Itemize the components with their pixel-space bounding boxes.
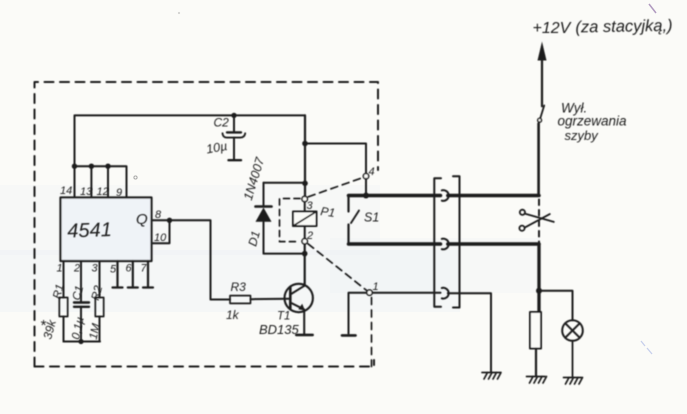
- resistor R3: [230, 296, 251, 304]
- wire dashed bracket around relay: [280, 199, 301, 242]
- wire +12V feed vertical: [528, 124, 539, 196]
- svg-text:6: 6: [126, 263, 133, 275]
- wire top rail: [75, 115, 306, 166]
- ignition switch blade: [540, 106, 544, 119]
- node lamp branch junction: [536, 288, 542, 294]
- relay P1 coil: [293, 212, 317, 227]
- wire RC bottom bus: [64, 341, 101, 343]
- wire thick row2: [349, 242, 441, 246]
- +12V arrow: [541, 60, 543, 106]
- ground (row3): [482, 373, 501, 380]
- wire pin 10 tie: [152, 220, 170, 243]
- transistor T1: [285, 284, 313, 335]
- svg-text:BD135: BD135: [259, 322, 300, 337]
- connector bracket right: [453, 176, 460, 307]
- svg-text:+12V: +12V: [533, 20, 572, 37]
- op-amp U1 4541 IC body: [61, 198, 152, 262]
- wire dashed cut segment: [538, 200, 540, 244]
- svg-text:C2: C2: [214, 116, 230, 130]
- node point 1: [367, 290, 372, 295]
- wire pin 13: [90, 166, 92, 196]
- wire dashed link 2 to 1: [308, 244, 367, 291]
- svg-text:Q: Q: [136, 211, 148, 228]
- svg-text:1: 1: [373, 281, 379, 293]
- node junctions on main vertical: [302, 141, 308, 257]
- wire pin 6 stub: [128, 261, 138, 288]
- svg-text:8: 8: [155, 209, 162, 221]
- node contact 3: [302, 196, 307, 201]
- resistor R2: [95, 298, 103, 317]
- svg-text:7: 7: [141, 263, 148, 275]
- wire thick row1: [349, 194, 441, 198]
- svg-text:P1: P1: [320, 204, 336, 220]
- wire row3 (point 1 line): [372, 292, 441, 294]
- svg-text:14: 14: [60, 185, 72, 197]
- svg-text:4: 4: [369, 166, 375, 178]
- wire main vertical (rail to relay/transistor): [304, 115, 306, 196]
- connector bracket left: [434, 178, 441, 307]
- svg-text:ogrzewania: ogrzewania: [558, 114, 628, 129]
- connector contact row1: [442, 190, 449, 201]
- svg-text:4541: 4541: [67, 219, 112, 243]
- wire row2 drop to resistor: [537, 244, 540, 312]
- dashed enclosure box: [35, 82, 379, 367]
- wire pin 1: [63, 261, 65, 298]
- wire R3 to base: [251, 298, 291, 301]
- wire pin 12: [107, 166, 109, 196]
- node contact 2: [302, 239, 307, 244]
- node point 4: [363, 174, 368, 179]
- svg-text:T1: T1: [277, 311, 290, 323]
- node C1 junction: [78, 339, 83, 344]
- svg-text:1: 1: [57, 263, 63, 275]
- node C2 rail junction: [231, 113, 236, 118]
- svg-text:5: 5: [110, 264, 117, 276]
- svg-text:3: 3: [307, 200, 314, 212]
- wire rail branch to point 4: [305, 144, 366, 174]
- ground (lamp): [564, 378, 583, 385]
- svg-text:R3: R3: [231, 280, 247, 294]
- capacitor C1: [74, 303, 89, 307]
- scissors: [519, 210, 553, 231]
- wire pin 3: [99, 261, 101, 298]
- svg-text:12: 12: [97, 186, 109, 198]
- svg-text:2: 2: [73, 263, 80, 275]
- node bus junctions: [72, 164, 111, 169]
- wire pin bus: [75, 166, 127, 196]
- ground (resistor): [527, 377, 547, 384]
- wire pin 8 output: [152, 220, 231, 299]
- svg-text:10: 10: [154, 232, 167, 244]
- connector contact row3: [442, 288, 449, 299]
- svg-text:13: 13: [80, 186, 93, 198]
- lamp: [562, 320, 583, 341]
- resistor heater: [530, 312, 541, 349]
- capacitor C2: [223, 115, 246, 160]
- wire pin 7 stub: [143, 261, 153, 288]
- connector contact row2: [442, 239, 449, 250]
- wire lamp branch: [539, 291, 573, 320]
- diode D1: [256, 183, 305, 254]
- wire dashed link 3 to 4: [308, 178, 363, 197]
- svg-text:szyby: szyby: [565, 128, 600, 143]
- wire pin 14: [74, 166, 76, 196]
- svg-text:9: 9: [116, 187, 122, 199]
- svg-text:2: 2: [306, 230, 313, 242]
- switch S1: [347, 196, 349, 212]
- svg-text:S1: S1: [364, 211, 379, 225]
- svg-text:1k: 1k: [226, 308, 240, 322]
- svg-text:(za stacyjką,): (za stacyjką,): [575, 17, 672, 37]
- wire pin 2: [80, 261, 82, 302]
- svg-text:3: 3: [92, 263, 99, 275]
- wire pin 5 stub: [113, 261, 123, 288]
- resistor R1: [59, 298, 67, 317]
- node pin8/10 junction: [167, 218, 172, 223]
- node junction on row1: [363, 193, 369, 199]
